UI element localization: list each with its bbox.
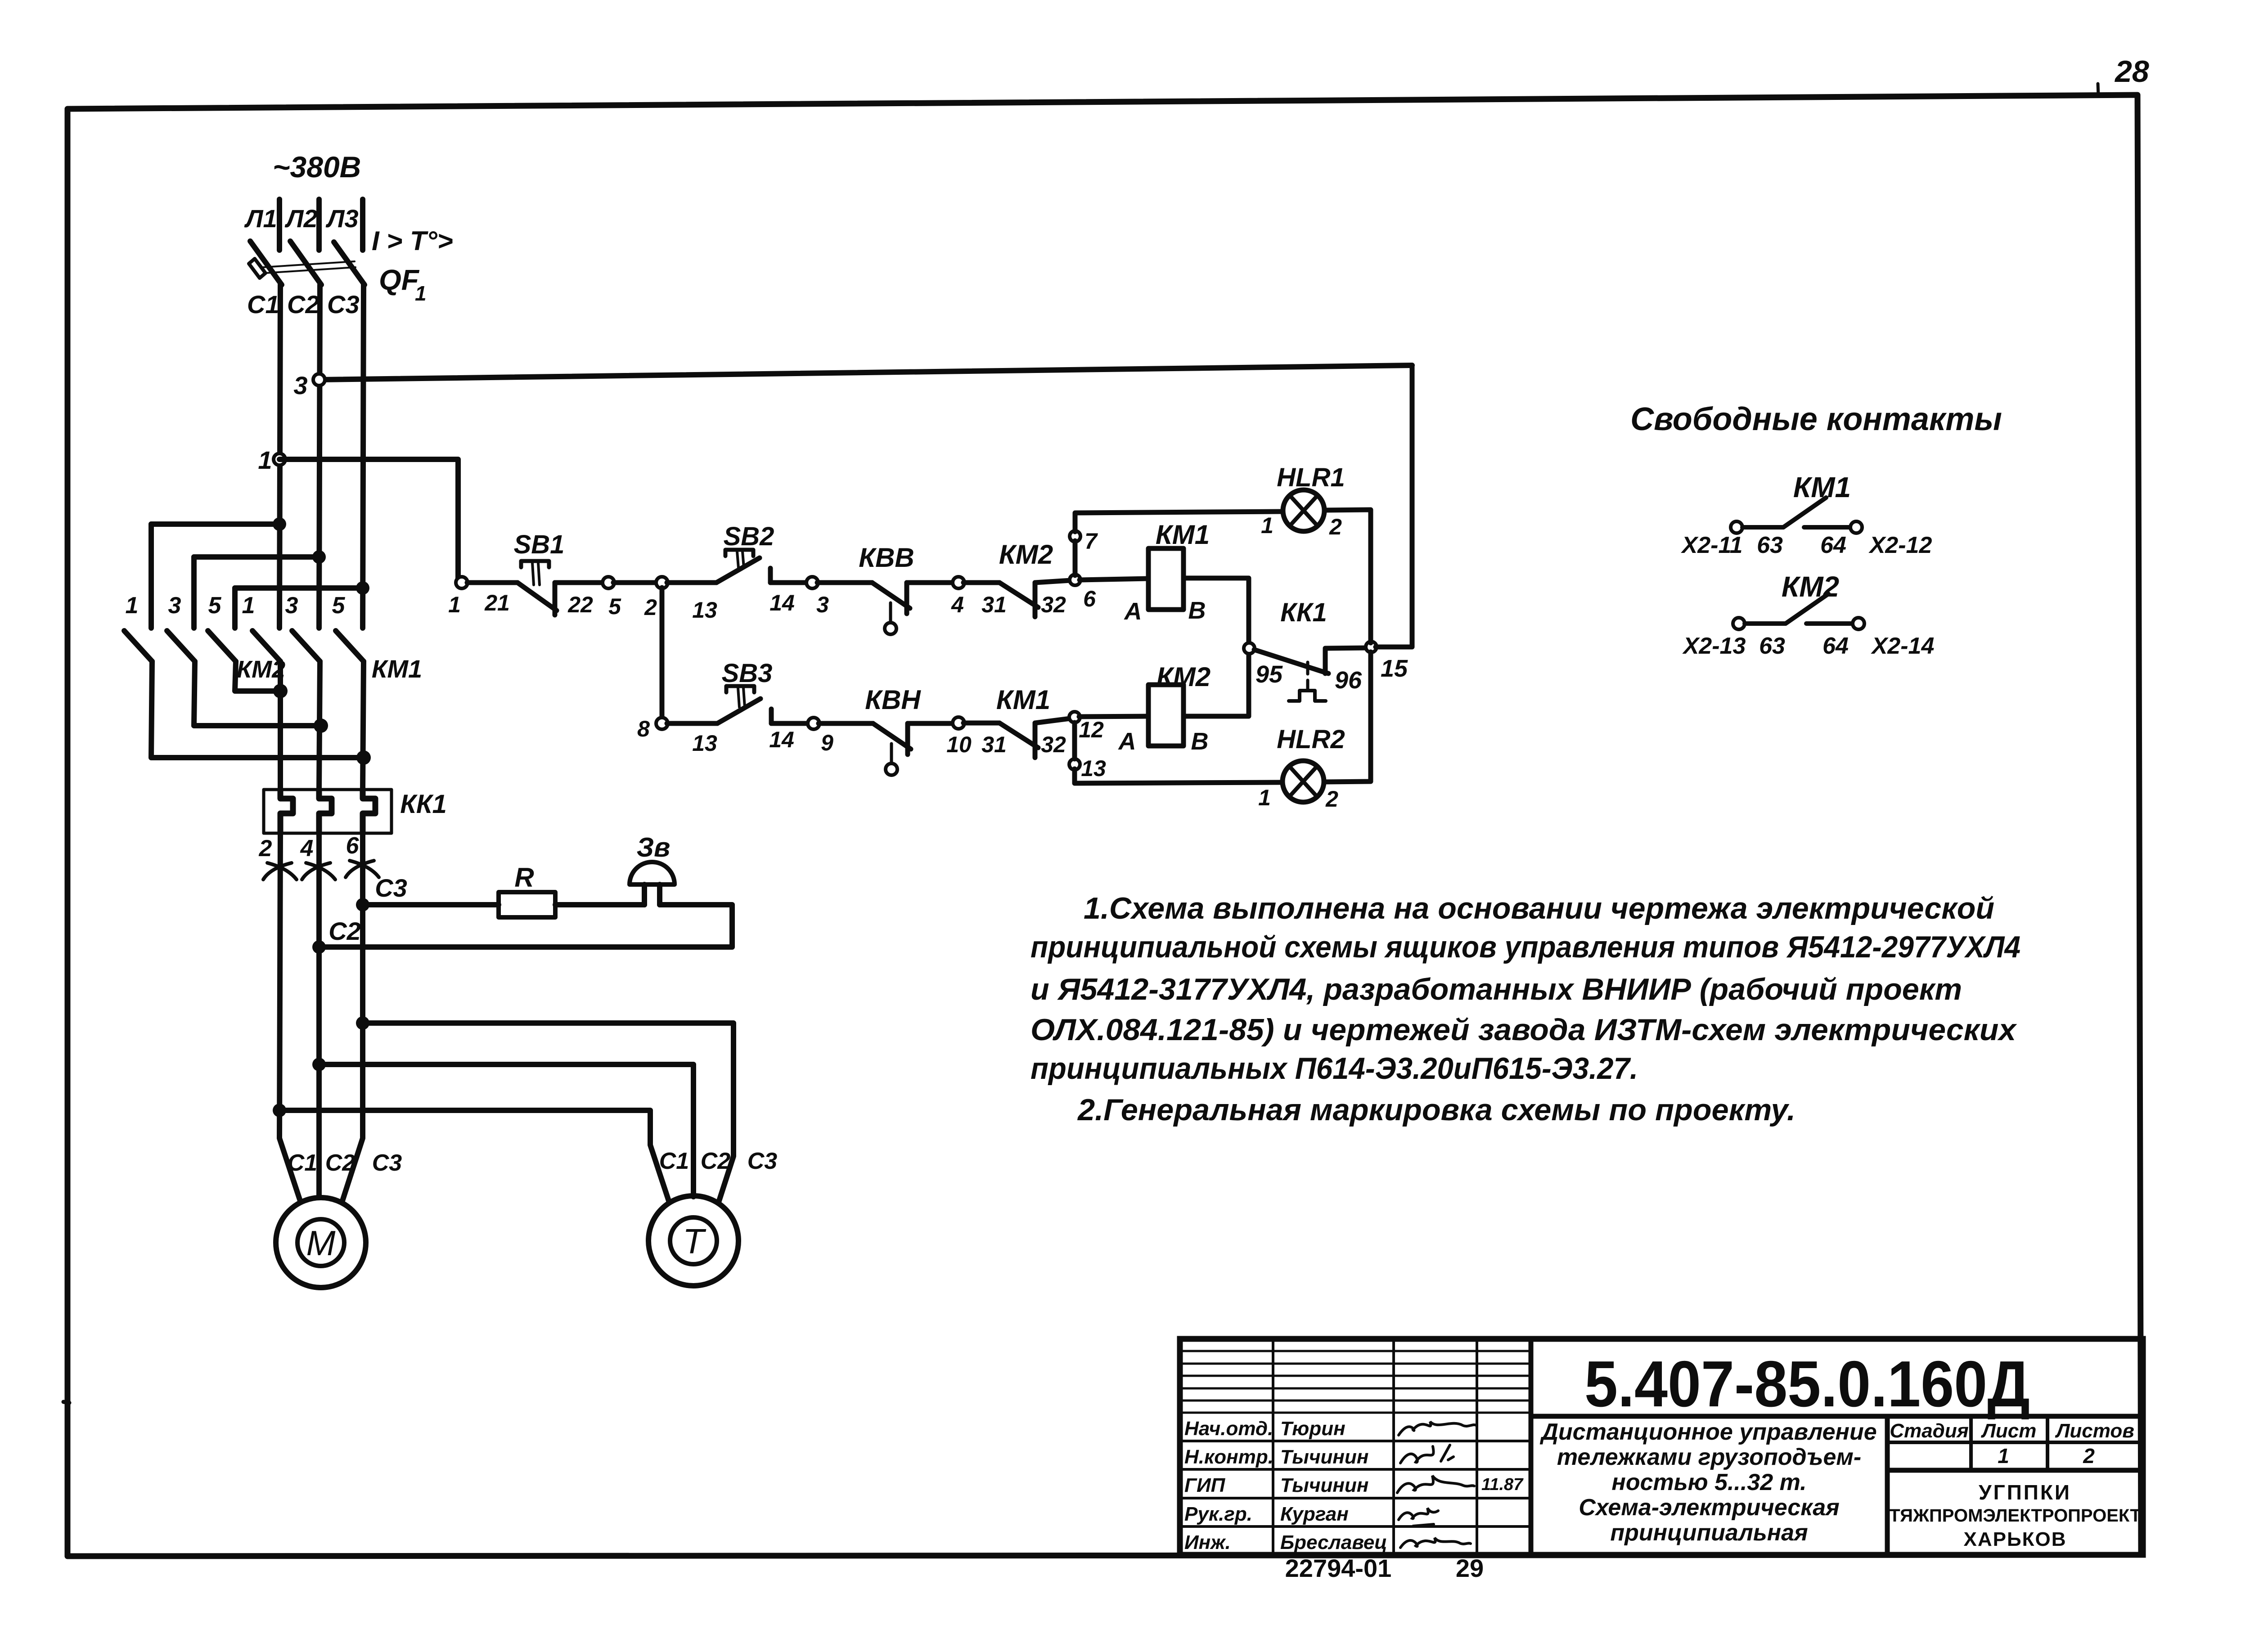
svg-text:8: 8 — [637, 716, 650, 741]
svg-text:Зв: Зв — [637, 832, 670, 862]
svg-text:4: 4 — [300, 835, 314, 862]
svg-text:5: 5 — [608, 594, 621, 619]
svg-text:Инж.: Инж. — [1184, 1531, 1231, 1553]
svg-text:КМ1: КМ1 — [996, 685, 1050, 715]
svg-text:X2-14: X2-14 — [1871, 633, 1935, 659]
svg-text:2: 2 — [644, 595, 657, 620]
svg-text:1: 1 — [242, 593, 255, 619]
svg-text:X2-11: X2-11 — [1681, 532, 1743, 558]
svg-text:29: 29 — [1456, 1554, 1484, 1582]
svg-text:Тычинин: Тычинин — [1280, 1446, 1368, 1468]
svg-text:I > T°>: I > T°> — [372, 226, 453, 256]
svg-text:Нач.отд.: Нач.отд. — [1184, 1418, 1273, 1440]
svg-text:2: 2 — [259, 835, 272, 862]
svg-text:В: В — [1191, 728, 1209, 755]
svg-text:6: 6 — [1083, 586, 1096, 611]
svg-text:R: R — [514, 862, 534, 893]
svg-text:Н.контр.: Н.контр. — [1184, 1446, 1273, 1468]
svg-text:9: 9 — [821, 730, 833, 755]
svg-text:С3: С3 — [372, 1150, 402, 1176]
svg-text:7: 7 — [1084, 529, 1098, 554]
svg-text:С2: С2 — [328, 917, 361, 945]
svg-text:SB1: SB1 — [514, 530, 565, 559]
svg-text:КМ2: КМ2 — [1156, 662, 1210, 692]
svg-text:~380В: ~380В — [273, 150, 361, 184]
svg-text:Схема-электрическая: Схема-электрическая — [1579, 1495, 1840, 1521]
svg-text:1: 1 — [1261, 513, 1273, 538]
svg-text:Бреславец: Бреславец — [1280, 1531, 1387, 1553]
svg-text:64: 64 — [1822, 633, 1849, 659]
svg-text:2.Генеральная маркировка схемы: 2.Генеральная маркировка схемы по проект… — [1077, 1093, 1795, 1127]
svg-text:Тычинин: Тычинин — [1280, 1474, 1368, 1496]
svg-text:31: 31 — [981, 592, 1007, 617]
svg-text:Лист: Лист — [1981, 1420, 2037, 1442]
svg-text:12: 12 — [1079, 717, 1104, 742]
svg-text:2: 2 — [2083, 1444, 2095, 1468]
svg-text:2: 2 — [1329, 514, 1342, 539]
svg-text:Стадия: Стадия — [1890, 1420, 1968, 1442]
svg-text:КМ1: КМ1 — [1156, 520, 1210, 550]
svg-text:4: 4 — [951, 592, 964, 617]
svg-text:96: 96 — [1335, 667, 1362, 694]
svg-text:ОЛХ.084.121-85) и чертежей з: ОЛХ.084.121-85) и чертежей завода ИЗТМ-с… — [1030, 1013, 2017, 1047]
svg-text:А: А — [1124, 598, 1142, 625]
svg-text:Рук.гр.: Рук.гр. — [1184, 1503, 1252, 1525]
svg-text:14: 14 — [769, 590, 795, 615]
svg-text:Л3: Л3 — [325, 204, 359, 233]
svg-text:32: 32 — [1041, 732, 1066, 757]
svg-text:Л2: Л2 — [284, 204, 318, 233]
svg-text:22794-01: 22794-01 — [1285, 1554, 1392, 1582]
svg-text:С1: С1 — [247, 290, 279, 319]
svg-text:М: М — [306, 1223, 336, 1263]
svg-text:1: 1 — [1998, 1444, 2009, 1468]
svg-text:Тюрин: Тюрин — [1280, 1418, 1345, 1440]
svg-text:С1: С1 — [288, 1150, 317, 1176]
svg-text:3: 3 — [293, 371, 307, 400]
svg-text:1.Схема выполнена на основании: 1.Схема выполнена на основании чертежа э… — [1084, 891, 1994, 925]
svg-text:ХАРЬКОВ: ХАРЬКОВ — [1964, 1528, 2067, 1550]
svg-text:64: 64 — [1820, 532, 1846, 558]
svg-text:15: 15 — [1381, 655, 1408, 682]
svg-text:КК1: КК1 — [400, 790, 447, 819]
svg-text:С2: С2 — [325, 1150, 355, 1176]
svg-text:1: 1 — [126, 593, 139, 619]
svg-text:КМ1: КМ1 — [1793, 471, 1851, 503]
svg-text:Листов: Листов — [2055, 1420, 2134, 1442]
svg-text:X2-12: X2-12 — [1868, 532, 1932, 558]
svg-text:Л1: Л1 — [244, 204, 277, 233]
svg-text:SB3: SB3 — [722, 659, 773, 688]
svg-text:28: 28 — [2114, 54, 2149, 89]
svg-text:5: 5 — [208, 593, 222, 619]
svg-text:КМ2: КМ2 — [1782, 570, 1839, 603]
svg-text:31: 31 — [981, 732, 1007, 757]
svg-text:11.87: 11.87 — [1481, 1475, 1524, 1494]
svg-text:УГППКИ: УГППКИ — [1979, 1481, 2071, 1504]
svg-text:3: 3 — [816, 592, 829, 617]
svg-text:95: 95 — [1255, 661, 1283, 688]
svg-text:КМ1: КМ1 — [372, 655, 422, 683]
svg-text:КМ2: КМ2 — [237, 656, 285, 683]
svg-text:63: 63 — [1759, 633, 1785, 659]
svg-text:1: 1 — [1258, 785, 1271, 810]
svg-text:10: 10 — [946, 732, 972, 757]
svg-text:С1: С1 — [659, 1148, 689, 1174]
svg-text:ГИП: ГИП — [1184, 1474, 1226, 1496]
svg-text:1: 1 — [415, 282, 427, 305]
svg-text:Дистанционное управление: Дистанционное управление — [1539, 1419, 1876, 1445]
svg-text:принципиальной схемы ящиков уп: принципиальной схемы ящиков управления т… — [1030, 930, 2020, 964]
svg-text:КМ2: КМ2 — [999, 539, 1053, 570]
svg-text:КК1: КК1 — [1280, 598, 1327, 627]
svg-text:SB2: SB2 — [724, 522, 774, 551]
svg-text:14: 14 — [769, 727, 794, 752]
svg-text:5: 5 — [332, 593, 346, 619]
svg-text:6: 6 — [346, 833, 360, 859]
svg-text:HLR2: HLR2 — [1277, 725, 1345, 754]
svg-text:С3: С3 — [375, 874, 407, 902]
svg-text:С3: С3 — [327, 290, 360, 319]
svg-text:Свободные контакты: Свободные контакты — [1630, 401, 2002, 437]
svg-text:С2: С2 — [287, 290, 319, 319]
svg-text:С2: С2 — [701, 1148, 731, 1174]
svg-text:ТЯЖПРОМЭЛЕКТРОПРОЕКТ: ТЯЖПРОМЭЛЕКТРОПРОЕКТ — [1889, 1506, 2141, 1526]
svg-text:X2-13: X2-13 — [1682, 633, 1746, 659]
svg-text:5.407-85.0.160Д: 5.407-85.0.160Д — [1584, 1347, 2030, 1420]
svg-text:и Я5412-3177УХЛ4, разработанны: и Я5412-3177УХЛ4, разработанных ВНИИР (р… — [1030, 972, 1962, 1006]
svg-text:HLR1: HLR1 — [1277, 463, 1345, 492]
svg-text:3: 3 — [285, 593, 298, 619]
svg-text:32: 32 — [1041, 592, 1066, 617]
svg-text:Курган: Курган — [1280, 1503, 1349, 1525]
svg-text:13: 13 — [692, 731, 717, 756]
svg-text:1: 1 — [448, 592, 461, 617]
svg-text:3: 3 — [168, 593, 181, 619]
svg-text:2: 2 — [1325, 786, 1338, 812]
svg-text:QF: QF — [379, 264, 420, 296]
svg-text:1: 1 — [258, 446, 272, 474]
svg-text:13: 13 — [1081, 756, 1106, 781]
svg-text:ностью 5...32 т.: ностью 5...32 т. — [1611, 1469, 1806, 1495]
svg-text:Т: Т — [683, 1221, 706, 1261]
svg-text:принципиальных П614-Э3.20иП615: принципиальных П614-Э3.20иП615-Э3.27. — [1030, 1051, 1638, 1086]
svg-text:тележками грузоподъем-: тележками грузоподъем- — [1557, 1444, 1861, 1470]
svg-text:22: 22 — [567, 592, 593, 617]
svg-text:В: В — [1188, 597, 1206, 624]
svg-text:63: 63 — [1757, 532, 1783, 558]
svg-text:С3: С3 — [747, 1148, 778, 1174]
svg-text:13: 13 — [692, 597, 717, 623]
svg-text:КВН: КВН — [865, 685, 921, 715]
svg-text:21: 21 — [484, 590, 510, 615]
svg-text:принципиальная: принципиальная — [1610, 1520, 1808, 1546]
svg-text:КВВ: КВВ — [859, 543, 914, 573]
svg-text:А: А — [1118, 728, 1136, 755]
